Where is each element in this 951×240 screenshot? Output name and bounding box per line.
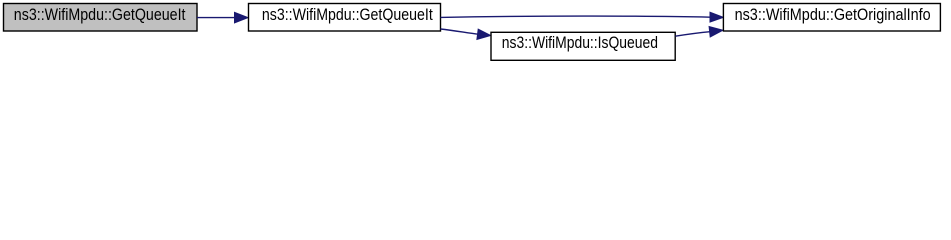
node box2: ns3::WifiMpdu::GetQueueIt xyxy=(249,4,441,32)
svg-text:ns3::WifiMpdu::GetQueueIt: ns3::WifiMpdu::GetQueueIt xyxy=(262,5,433,24)
wire edge C: box2 -> box3 xyxy=(441,29,491,39)
wire edge D: box3 -> box4 xyxy=(675,27,723,37)
wire edge B: box2 -> box4 xyxy=(441,12,724,22)
svg-text:ns3::WifiMpdu::GetOriginalInfo: ns3::WifiMpdu::GetOriginalInfo xyxy=(735,5,931,24)
svg-text:ns3::WifiMpdu::GetQueueIt: ns3::WifiMpdu::GetQueueIt xyxy=(14,5,186,24)
node box4: ns3::WifiMpdu::GetOriginalInfo xyxy=(723,4,940,32)
node box3: ns3::WifiMpdu::IsQueued xyxy=(491,32,675,60)
wire edge A: box1 -> box2 xyxy=(197,12,248,23)
node box1: ns3::WifiMpdu::GetQueueIt (current, gray) xyxy=(4,4,198,32)
svg-text:ns3::WifiMpdu::IsQueued: ns3::WifiMpdu::IsQueued xyxy=(502,33,658,52)
